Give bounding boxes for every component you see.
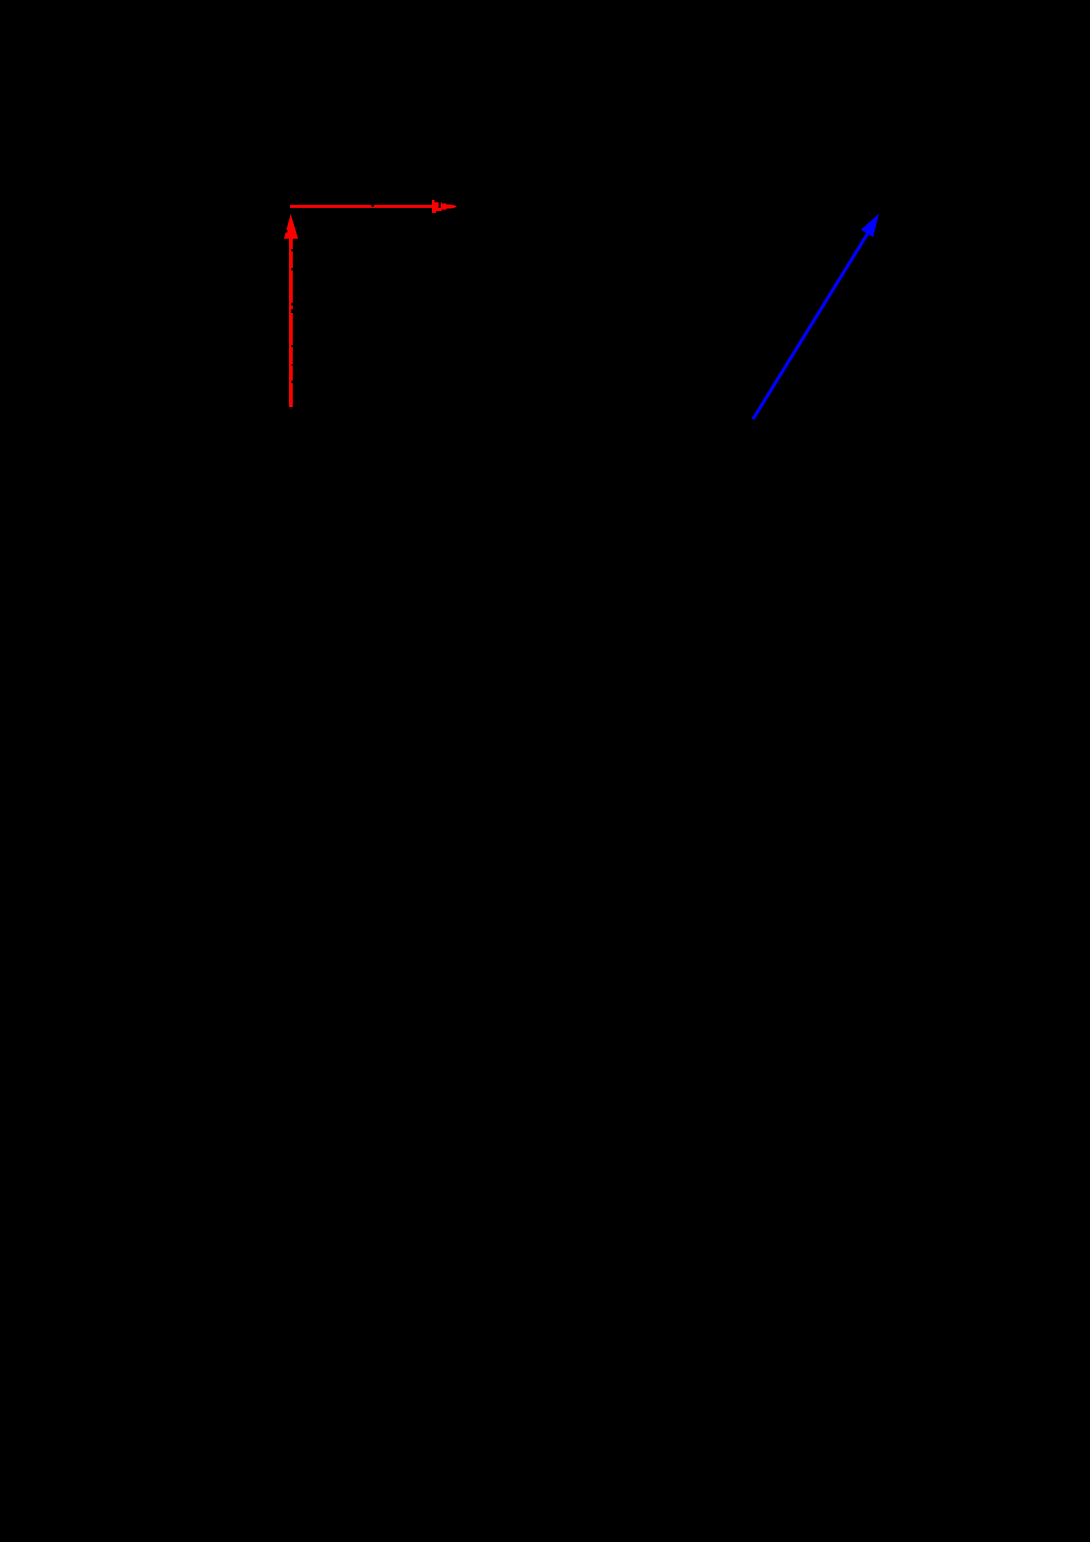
red vertical component vector a_y : shaft xyxy=(289,226,293,407)
red vertical component vector a_y : arrowhead xyxy=(284,214,298,239)
red horizontal component vector a_x : shaft xyxy=(290,205,433,208)
blue resultant vector a : shaft xyxy=(753,231,870,420)
red horizontal component vector a_x : arrowhead xyxy=(432,200,457,213)
black overlap notch on a_y arrowhead left edge xyxy=(286,230,288,233)
black overlap slit in a_x arrowhead xyxy=(439,202,441,209)
black overlap notch on a_x shaft xyxy=(372,204,375,206)
black overlap notches on a_y shaft right edge xyxy=(291,249,293,383)
blue resultant vector a : arrowhead xyxy=(861,214,879,238)
black overlap nick on blue shaft xyxy=(814,310,816,313)
